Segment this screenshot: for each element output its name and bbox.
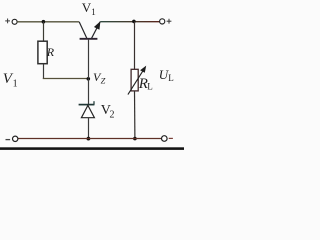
svg-text:Z: Z xyxy=(101,76,106,86)
svg-text:L: L xyxy=(168,73,174,83)
wire zener bottom lead xyxy=(88,118,90,139)
wire bottom rail xyxy=(18,138,162,140)
resistor RL arrow head xyxy=(140,66,146,73)
node junction zener/rail xyxy=(87,137,91,141)
resistor RL arrow line xyxy=(128,68,145,94)
node junction RL/rail xyxy=(133,137,137,141)
resistor RL (variable) body xyxy=(131,69,138,91)
zener V2 cathode bar xyxy=(79,104,95,106)
wire top-left horizontal xyxy=(17,21,79,23)
wire RL bottom lead xyxy=(134,91,136,139)
svg-text:2: 2 xyxy=(110,110,115,121)
terminal T3 (- input, bottom-left) xyxy=(6,136,18,141)
wire R top lead xyxy=(43,22,45,42)
transistor V1 collector line xyxy=(79,22,87,38)
wire zener top lead xyxy=(88,79,90,105)
zener V2 triangle xyxy=(81,105,94,117)
bottom border band xyxy=(0,147,184,150)
wire emitter to output xyxy=(100,21,159,23)
zener V2 cathode hook xyxy=(93,101,95,105)
svg-text:1: 1 xyxy=(91,7,96,17)
wire base node horizontal xyxy=(43,78,89,80)
transistor V1 base bar xyxy=(80,38,98,40)
resistor R xyxy=(38,41,47,64)
wire base lead vertical xyxy=(88,40,90,79)
svg-text:V: V xyxy=(82,0,92,15)
svg-text:R: R xyxy=(46,45,55,59)
svg-text:L: L xyxy=(147,81,153,91)
wire RL top lead xyxy=(134,22,136,70)
wire R bottom lead xyxy=(43,64,45,79)
transistor V1 emitter arrow xyxy=(94,21,100,30)
terminal T2 (+ output, top-right) xyxy=(160,19,172,24)
node junction above R xyxy=(42,20,46,24)
terminal T4 (- output, bottom-right) xyxy=(162,136,173,142)
svg-text:1: 1 xyxy=(13,79,18,90)
node VZ junction xyxy=(87,77,91,81)
terminal T1 (+ input, top-left) xyxy=(5,19,17,25)
transistor V1 emitter line xyxy=(92,22,101,39)
node junction above RL xyxy=(132,20,136,24)
